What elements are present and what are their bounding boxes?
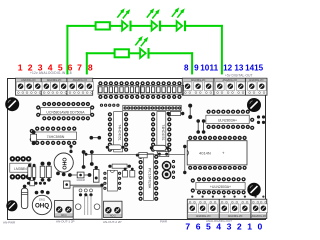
header J1 outline: [123, 105, 181, 110]
U10 right pad column: [118, 172, 121, 190]
U8 left end pads: [191, 178, 195, 192]
svg-text:12: 12: [223, 64, 233, 73]
U5 DIP-8 bottom pad row: [10, 174, 32, 179]
D1 emission arrows: [117, 10, 129, 19]
svg-text:7: 7: [185, 221, 190, 231]
U5 body: [10, 163, 31, 172]
board outline: [8, 79, 266, 220]
svg-text:9: 9: [194, 64, 199, 73]
BZ1 pads: [56, 172, 66, 177]
jumper W7: [69, 145, 72, 153]
svg-text:OHO: OHO: [60, 157, 66, 169]
mounting hole bottom-left: [6, 200, 17, 211]
U7 4014N bottom pad row: [188, 166, 247, 170]
pads left of J1: [100, 104, 120, 107]
electrolytic capacitor C3: [162, 162, 170, 170]
svg-text:6: 6: [196, 221, 201, 231]
U1 UCN5801A top pad row: [42, 102, 90, 106]
BR strip top marks: [189, 201, 266, 203]
terminal strip TL (inputs 1-8): [16, 78, 94, 95]
svg-text:8: 8: [184, 64, 189, 73]
capacitor C5 (left edge): [21, 185, 27, 209]
U6 ULN2803A bottom pad row: [207, 125, 250, 129]
resistor R4: [108, 164, 131, 168]
U2 74HC595 bottom pad row: [35, 141, 76, 145]
capacitor C6: [123, 168, 128, 177]
resistor banks top pad row: [98, 81, 181, 85]
jumper W6: [202, 119, 206, 134]
svg-text:AN-OUT-2 2P: AN-OUT-2 2P: [103, 220, 122, 224]
svg-text:5: 5: [58, 63, 63, 73]
crystal X1: [150, 145, 169, 150]
crystal X2: [106, 145, 125, 150]
resistor R3 (right of U4): [167, 111, 185, 115]
jumper W5: [196, 119, 200, 134]
capacitor C1 box: [158, 152, 169, 157]
svg-text:74HC4051: 74HC4051: [118, 124, 122, 140]
svg-text:ANA/DIG-I/O: ANA/DIG-I/O: [228, 215, 243, 218]
U8 ULN2803A top pad row: [197, 177, 246, 181]
wire: D4 to right corner loop B: [149, 52, 194, 54]
buzzer BZ1 (OHQ round part): [54, 153, 73, 172]
LED D1: [122, 21, 130, 32]
svg-text:4014N: 4014N: [199, 150, 211, 155]
svg-text:PIC16F628A: PIC16F628A: [148, 168, 152, 189]
svg-text:3: 3: [38, 63, 43, 73]
jumper W3: [90, 150, 94, 166]
U1 right end pads: [90, 105, 94, 117]
U2 74HC595 top pad row: [35, 127, 76, 131]
wire: loop B top run to R2: [86, 52, 115, 54]
U4 right pad column: [167, 112, 171, 152]
diode D6: [47, 162, 52, 182]
mounting hole top-right: [247, 98, 261, 112]
U4 body: [157, 112, 166, 152]
capacitor C2 box: [136, 152, 147, 157]
svg-text:2: 2: [28, 63, 33, 73]
U9 PIC left pad column: [139, 155, 143, 201]
U3 right pad column: [124, 112, 128, 152]
inductor L1 (horizontal part): [68, 172, 91, 182]
svg-text:15: 15: [254, 64, 264, 73]
U10 body: [107, 170, 117, 191]
svg-text:ANA/DIG-I/O: ANA/DIG-I/O: [196, 215, 211, 218]
wire: loop A top run to R1: [66, 25, 95, 27]
TR strip polarity marks: [185, 92, 265, 94]
svg-text:11: 11: [210, 64, 219, 73]
component pair left cluster: [28, 164, 36, 181]
wire: right riser loop A: [221, 25, 223, 75]
bottom silkscreen notes: [3, 219, 232, 224]
U1 UCN5801A body: [41, 108, 91, 115]
pads right of caps: [172, 160, 175, 179]
LED D2: [152, 21, 160, 32]
D3 emission arrows: [172, 9, 184, 18]
svg-text:0: 0: [258, 221, 263, 231]
D2 emission arrows: [147, 10, 159, 19]
svg-text:ULN2803A+: ULN2803A+: [218, 119, 237, 123]
wire: right riser loop B: [191, 52, 193, 74]
U6 right end pads: [250, 118, 254, 130]
node labels: blue output numbers 8-15: [184, 64, 264, 73]
relay K1: [73, 187, 102, 219]
wire: D2 to D3: [160, 25, 177, 27]
wire: D1 to D2: [131, 25, 152, 27]
component B2: [93, 166, 99, 182]
U6 ULN2803A body: [206, 115, 249, 123]
svg-text:+5v DIGITAL-OUT: +5v DIGITAL-OUT: [225, 74, 253, 78]
jumper W4 right: [188, 104, 192, 119]
node labels: blue bottom numbers 7-0: [185, 221, 262, 231]
svg-text:LM358N: LM358N: [14, 167, 27, 171]
terminal strip BR (outputs 7-0): [187, 199, 267, 218]
svg-text:AD-1: AD-1: [61, 214, 67, 217]
svg-text:1N4148: 1N4148: [76, 179, 85, 182]
buzzer BZ2 (OHQ round part): [32, 195, 51, 214]
resistor bank RN-B outline: [140, 85, 183, 94]
via row above BR strip: [191, 196, 264, 198]
resistor R1: [96, 22, 110, 29]
small parts above BZ2: [27, 181, 46, 186]
terminal block T2: [104, 201, 122, 217]
U8 ULN2803A body: [196, 182, 245, 189]
jumper W1: [90, 136, 102, 140]
component P2 with long lead: [63, 181, 103, 188]
wire: R1 to D1: [110, 25, 122, 27]
pads cluster right edge: [257, 115, 265, 124]
resistor banks bottom pad row: [98, 95, 181, 99]
BZ2 pads above: [35, 190, 50, 194]
svg-text:ANA/DIG-I/O: ANA/DIG-I/O: [252, 215, 267, 218]
svg-text:13: 13: [234, 64, 244, 73]
mounting hole top-left: [5, 97, 19, 111]
terminal block T1: [55, 201, 74, 217]
terminal strip TR (outputs 8-15): [182, 78, 267, 95]
U5 DIP-8 top pad row: [10, 156, 32, 161]
U7 4014N body: [187, 141, 247, 165]
electrolytic capacitor C4: [162, 170, 170, 178]
diode D5: [40, 162, 45, 182]
U2 left end pads: [30, 129, 34, 142]
U6 ULN2803A top pad row: [207, 110, 250, 114]
U1 UCN5801A bottom pad row: [42, 116, 90, 120]
resistor bank RN-A outline: [98, 85, 139, 94]
svg-text:2: 2: [237, 221, 242, 231]
header J1 pins: [124, 106, 182, 109]
component V1 (vertical 2-pad): [31, 130, 37, 145]
svg-text:4: 4: [48, 63, 53, 73]
U9 PIC right pad column: [154, 155, 158, 201]
resistor bank elements: [99, 87, 182, 93]
svg-text:74HC4051: 74HC4051: [161, 124, 165, 140]
svg-text:1: 1: [247, 221, 252, 231]
wire: left riser loop B: [86, 52, 88, 74]
U10 left pad column: [103, 172, 106, 190]
svg-text:AN-PWR: AN-PWR: [3, 221, 16, 225]
LED D4: [140, 48, 148, 59]
wire: R2 to D4: [129, 52, 140, 54]
svg-text:+ULN2803A+: +ULN2803A+: [210, 185, 231, 189]
U4 left pad column: [151, 112, 155, 152]
svg-text:74HC595N: 74HC595N: [47, 135, 65, 139]
trace TR2 vertical: [183, 145, 186, 174]
svg-text:8: 8: [88, 63, 93, 73]
node labels: red input numbers 1-8: [18, 63, 93, 73]
LED D3: [177, 21, 185, 32]
svg-text:30911: 30911: [39, 199, 46, 202]
svg-text:PWR: PWR: [160, 219, 168, 223]
D4 emission arrows: [135, 38, 147, 47]
U8 ULN2803A bottom pad row: [197, 190, 246, 194]
U9 PIC16F628A body: [144, 154, 154, 201]
trace TR1 horizontal: [85, 153, 185, 156]
wire: left riser loop A: [66, 25, 68, 75]
U1 left end pads: [36, 105, 40, 117]
svg-text:UCN5801AWB DD7509A: UCN5801AWB DD7509A: [46, 110, 85, 114]
wire: D3 to right corner: [185, 25, 223, 27]
capacitor C7: [130, 168, 135, 177]
TL strip polarity marks: [18, 92, 93, 94]
U7 4014N top pad row: [188, 136, 247, 140]
svg-text:AD-2: AD-2: [110, 215, 116, 218]
U3 body: [114, 112, 123, 152]
svg-text:AN-OUT-1 2P: AN-OUT-1 2P: [56, 220, 75, 224]
jumper W2: [82, 150, 86, 169]
svg-text:ANALOG/DIG-OUT: ANALOG/DIG-OUT: [206, 219, 232, 223]
resistor R2: [115, 49, 129, 57]
svg-text:OHQ: OHQ: [35, 202, 49, 209]
svg-text:7: 7: [77, 63, 82, 73]
U3 left pad column: [108, 112, 112, 152]
mounting hole bottom-right: [247, 183, 260, 196]
U2 74HC595 body: [35, 132, 77, 140]
svg-text:10: 10: [200, 64, 210, 73]
svg-text:1: 1: [18, 63, 23, 73]
